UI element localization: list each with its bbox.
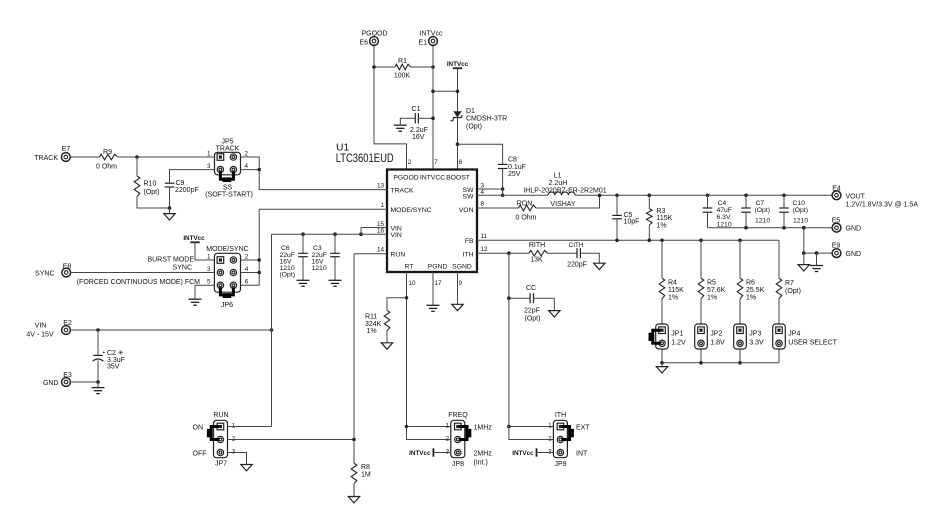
- svg-text:VISHAY: VISHAY: [550, 201, 575, 208]
- capacitor C9 2200pF: [165, 182, 175, 184]
- JP9 pin2 pad: [557, 436, 563, 442]
- JP7 pin1 pad: [217, 423, 224, 430]
- svg-text:ITH: ITH: [555, 412, 566, 419]
- svg-text:4: 4: [245, 163, 249, 170]
- ground SGND (triangle): [452, 304, 463, 310]
- svg-text:2: 2: [245, 253, 249, 260]
- svg-text:100K: 100K: [394, 73, 411, 80]
- svg-text:9: 9: [459, 280, 463, 287]
- node JP5 net junction: [257, 168, 261, 172]
- svg-text:RON: RON: [517, 200, 533, 207]
- svg-text:MODE/SYNC: MODE/SYNC: [206, 246, 248, 253]
- svg-text:CMDSH-3TR: CMDSH-3TR: [466, 116, 507, 123]
- wire E6 stub: [373, 46, 375, 67]
- JP6 pin3 pad: [217, 269, 223, 275]
- ground C2 (earth): [92, 387, 105, 389]
- node R1-PGOOD junction: [372, 65, 376, 69]
- wire JP6 pin4: [241, 272, 260, 274]
- svg-text:ITH: ITH: [463, 252, 474, 259]
- JP5 pin1 pad: [217, 154, 224, 161]
- JP6 pin4 pad: [230, 269, 236, 275]
- power flag INTVcc (JP9): [536, 448, 538, 456]
- wire R1 right: [411, 66, 434, 68]
- wire SW pin4 to L1: [477, 194, 548, 196]
- wire RT to R11: [387, 298, 407, 311]
- wire PGND stub: [432, 272, 434, 305]
- svg-text:JP1: JP1: [671, 331, 683, 338]
- svg-text:14: 14: [377, 246, 385, 253]
- wire INTVCC-D1 link: [433, 90, 458, 92]
- capacitor C4 47uF: [707, 195, 709, 208]
- wire TRACK net to U1 pin13: [259, 170, 387, 190]
- svg-text:E5: E5: [832, 218, 841, 225]
- JP8 pin1 pad: [455, 423, 462, 430]
- power flag INTVcc (top): [453, 67, 462, 69]
- JP8 shunt pins1-2: [459, 427, 467, 440]
- JP6 pin6 pad: [230, 282, 236, 288]
- svg-text:BURST MODE: BURST MODE: [147, 257, 194, 264]
- wire VIN pin15 stub: [361, 227, 387, 229]
- svg-text:4: 4: [245, 266, 249, 273]
- svg-text:VIN: VIN: [391, 232, 402, 239]
- ground JP7 (triangle): [241, 465, 252, 471]
- svg-text:LTC3601EUD: LTC3601EUD: [336, 151, 394, 165]
- svg-text:RUN: RUN: [391, 252, 406, 259]
- node SW pin4 junction: [501, 194, 505, 198]
- jumper JP3 block: [734, 324, 747, 349]
- capacitor C6 22uF: [302, 234, 304, 253]
- svg-text:JP6: JP6: [221, 302, 233, 309]
- power flag INTVcc (JP8): [432, 448, 434, 456]
- JP7 pin2 pad: [217, 436, 223, 442]
- svg-text:13K: 13K: [530, 256, 543, 263]
- svg-text:RUN: RUN: [213, 412, 228, 419]
- node C2 junction: [96, 328, 100, 332]
- svg-text:1: 1: [207, 150, 211, 157]
- svg-text:1%: 1%: [657, 222, 667, 229]
- svg-text:(Opt): (Opt): [755, 207, 770, 214]
- JP9 shunt pins1-2: [562, 427, 570, 440]
- svg-text:1.2V: 1.2V: [671, 340, 686, 347]
- power flag INTVcc (JP6): [190, 241, 199, 243]
- JP1 pin2 pad: [659, 340, 665, 346]
- svg-text:C2 ✳: C2 ✳: [107, 349, 124, 357]
- wire JP5 pin4: [241, 169, 260, 171]
- svg-text:8: 8: [481, 201, 485, 208]
- resistor R11 324K: [384, 310, 390, 331]
- turret E3 (GND): [62, 378, 71, 387]
- wire ground stub: [169, 208, 171, 214]
- svg-text:10: 10: [409, 280, 417, 287]
- svg-text:JP9: JP9: [554, 461, 566, 468]
- wire E7 to R9: [70, 156, 99, 158]
- svg-text:C1: C1: [412, 106, 421, 113]
- svg-text:1: 1: [445, 423, 449, 430]
- wire SGND stub: [457, 272, 459, 304]
- node E9 row left junction: [802, 251, 806, 255]
- svg-text:E7: E7: [62, 146, 71, 153]
- node R3 top junction: [648, 194, 652, 198]
- svg-text:22pF: 22pF: [524, 307, 540, 314]
- wire RON to SW net: [536, 195, 600, 208]
- svg-text:1MHz: 1MHz: [474, 424, 493, 431]
- jumper JP7 RUN block: [214, 420, 228, 457]
- svg-text:7: 7: [434, 159, 438, 166]
- svg-text:FREQ: FREQ: [448, 412, 468, 419]
- ground C6 (earth): [297, 279, 310, 281]
- svg-text:35V: 35V: [107, 363, 120, 370]
- wire VIN rail to U1: [272, 233, 362, 235]
- svg-text:PGOOD: PGOOD: [393, 175, 418, 182]
- svg-text:2: 2: [445, 436, 449, 443]
- resistor R6 25.5K: [739, 240, 741, 278]
- op-amp U1 LTC3601EUD body: [387, 170, 477, 273]
- capacitor CC 22pF: [509, 297, 530, 299]
- jumper JP1 block: [656, 324, 669, 349]
- svg-text:SW: SW: [463, 194, 475, 201]
- ground C3 (earth): [329, 279, 342, 281]
- node C6 junction: [301, 232, 305, 236]
- jumper JP4 block: [773, 324, 786, 349]
- svg-text:E8: E8: [63, 264, 72, 271]
- svg-text:324K: 324K: [365, 321, 382, 328]
- node rail JP2: [699, 361, 703, 365]
- node VIN pin tie junction: [359, 232, 363, 236]
- svg-text:JP4: JP4: [788, 331, 800, 338]
- svg-text:115K: 115K: [657, 215, 673, 222]
- svg-text:MODE/SYNC: MODE/SYNC: [391, 207, 432, 214]
- node C4 junction: [706, 194, 710, 198]
- node C3 junction: [333, 232, 337, 236]
- svg-text:2: 2: [245, 150, 249, 157]
- svg-text:(FORCED CONTINUOUS MODE) FCM: (FORCED CONTINUOUS MODE) FCM: [77, 279, 200, 286]
- svg-text:2: 2: [548, 436, 552, 443]
- svg-text:6: 6: [459, 159, 463, 166]
- svg-text:1%: 1%: [367, 328, 377, 335]
- wire gnd drop: [803, 228, 805, 253]
- wire VIN riser vertical: [271, 234, 273, 426]
- svg-text:GND: GND: [43, 380, 59, 387]
- node C10 junction: [782, 194, 786, 198]
- wire VIN pin15/16 tie: [360, 228, 362, 235]
- svg-text:R5: R5: [707, 280, 716, 287]
- svg-text:1210: 1210: [755, 217, 770, 224]
- wire D1 cathode to BOOST pin6: [457, 118, 459, 170]
- wire RUN net riser: [353, 254, 355, 440]
- svg-text:3: 3: [207, 266, 211, 273]
- wire RITH to CITH: [548, 252, 578, 254]
- JP3 pin1 pad: [737, 327, 744, 334]
- svg-text:R7: R7: [785, 280, 794, 287]
- wire FB rail from U1 pin11: [477, 239, 779, 241]
- jumper JP2 block: [695, 324, 708, 349]
- resistor R5 57.6K: [700, 240, 702, 278]
- svg-text:RT: RT: [405, 264, 414, 271]
- wire C6 bottom: [302, 257, 304, 280]
- svg-text:JP2: JP2: [710, 331, 722, 338]
- svg-text:TRACK: TRACK: [34, 155, 58, 162]
- ground output (earth): [810, 265, 823, 267]
- resistor R8 1M: [353, 440, 355, 464]
- svg-text:VIN: VIN: [35, 322, 47, 329]
- wire C8 to SW: [502, 169, 504, 196]
- resistor R4 115K: [661, 240, 663, 278]
- turret E6 (PGOOD): [370, 37, 379, 46]
- wire JP7 pin1 to VIN: [228, 426, 272, 428]
- svg-text:CC: CC: [526, 285, 536, 292]
- wire jumper to rail: [739, 349, 741, 363]
- svg-text:IHLP-2020BZ-ER-2R2M01: IHLP-2020BZ-ER-2R2M01: [523, 187, 606, 194]
- JP6 pin5 pad: [217, 282, 223, 288]
- jumper JP9 ITH block: [553, 420, 567, 457]
- JP8 pin3 pad: [455, 449, 461, 455]
- svg-text:VON: VON: [459, 207, 474, 214]
- node pin2 junction: [257, 258, 261, 262]
- JP2 pin1 pad: [698, 327, 705, 334]
- node RT junction: [405, 296, 409, 300]
- diode D1 CMDSH-3TR: [453, 111, 462, 117]
- svg-text:6: 6: [245, 279, 249, 286]
- svg-text:TRACK: TRACK: [391, 188, 415, 195]
- JP5 pin3 pad: [217, 166, 223, 172]
- node C5 bottom: [615, 239, 619, 243]
- capacitor C5 10pF: [616, 195, 618, 215]
- node C10 bottom: [782, 226, 786, 230]
- JP5 shunt pins3-4: [220, 172, 233, 180]
- ground divider (triangle): [656, 367, 667, 373]
- capacitor C1 2.2uF: [414, 113, 416, 123]
- svg-text:13: 13: [377, 182, 385, 189]
- wire MODE/SYNC to U1 pin1: [259, 208, 387, 210]
- svg-text:JP5: JP5: [221, 138, 233, 145]
- svg-text:220pF: 220pF: [567, 262, 587, 269]
- node FREQ fork junction: [405, 425, 409, 429]
- wire to earth ground: [816, 253, 818, 265]
- wire VON pin8 to RON: [477, 207, 519, 209]
- svg-text:1210: 1210: [312, 265, 327, 272]
- wire E8 to JP6 pin3: [71, 272, 215, 274]
- node link left: [431, 90, 435, 94]
- svg-text:FB: FB: [465, 238, 474, 245]
- turret E1 (INTVcc): [429, 37, 438, 46]
- JP3 pin2 pad: [737, 340, 743, 346]
- svg-text:2.2uH: 2.2uH: [549, 180, 568, 187]
- svg-text:(Int.): (Int.): [474, 459, 488, 466]
- wire RT stub: [406, 272, 408, 298]
- svg-text:47uF: 47uF: [717, 207, 733, 214]
- svg-text:(Opt): (Opt): [785, 288, 801, 295]
- wire R10 bottom: [137, 197, 170, 209]
- wire CC riser: [508, 253, 510, 426]
- JP5 pin4 pad: [230, 166, 236, 172]
- ground C1 (earth): [394, 124, 407, 126]
- svg-text:0 Ohm: 0 Ohm: [515, 215, 536, 222]
- JP9 pin3 pad: [557, 449, 563, 455]
- svg-text:RITH: RITH: [529, 242, 545, 249]
- node rail JP1: [660, 361, 664, 365]
- svg-text:SS: SS: [223, 184, 233, 191]
- capacitor C10 (Opt): [783, 195, 785, 208]
- svg-text:25.5K: 25.5K: [746, 287, 765, 294]
- svg-text:INTVcc: INTVcc: [183, 235, 205, 242]
- node D1/C8 junction: [456, 142, 460, 146]
- svg-text:1: 1: [207, 253, 211, 260]
- svg-text:INTVcc: INTVcc: [409, 450, 431, 457]
- svg-text:3: 3: [207, 163, 211, 170]
- node R4 top: [660, 239, 664, 243]
- svg-text:R11: R11: [365, 314, 377, 321]
- svg-text:EXT: EXT: [576, 424, 590, 431]
- wire JP6 pin5 to ground: [195, 285, 214, 299]
- svg-text:C7: C7: [756, 200, 765, 207]
- wire R11 bottom: [386, 331, 388, 343]
- svg-text:INTVCC: INTVCC: [420, 175, 445, 182]
- node R3 bottom: [648, 239, 652, 243]
- node SW pin3 junction: [501, 187, 505, 191]
- node rail JP3: [738, 361, 742, 365]
- wire jumper to rail: [661, 349, 663, 363]
- wire E9 row: [804, 252, 832, 254]
- node C7 bottom: [744, 226, 748, 230]
- svg-text:(Opt): (Opt): [793, 207, 808, 214]
- svg-text:1.8V: 1.8V: [710, 340, 725, 347]
- wire CC to ground: [534, 298, 555, 310]
- ground C9 (triangle): [164, 214, 175, 220]
- node RUN/R8 junction: [352, 438, 356, 442]
- JP6 pin1 pad: [217, 257, 224, 264]
- JP1 shunt: [653, 330, 661, 343]
- JP5 pin2 pad: [230, 154, 236, 160]
- svg-text:SYNC: SYNC: [35, 271, 54, 278]
- node ITH fork junction: [507, 425, 511, 429]
- ground CC (triangle): [549, 311, 560, 317]
- svg-text:E4: E4: [832, 185, 841, 192]
- svg-text:INTVcc: INTVcc: [447, 61, 469, 68]
- svg-text:INTVcc: INTVcc: [512, 450, 534, 457]
- wire SW pin3 stub: [477, 188, 503, 190]
- svg-text:57.6K: 57.6K: [707, 287, 726, 294]
- svg-text:(Opt): (Opt): [525, 315, 541, 322]
- resistor RITH 13K: [529, 250, 548, 256]
- wire R1 left: [374, 66, 395, 68]
- wire to C8: [458, 144, 503, 164]
- wire jumper to rail: [778, 349, 780, 363]
- wire E2 to VIN riser: [70, 329, 271, 331]
- svg-text:C8: C8: [508, 157, 517, 164]
- svg-text:PGOOD: PGOOD: [361, 31, 387, 38]
- svg-text:5: 5: [207, 279, 211, 286]
- node C9 ground junction: [168, 206, 172, 210]
- ground R8 (triangle): [348, 497, 359, 503]
- inductor L1 2.2uH: [548, 192, 575, 195]
- svg-text:1%: 1%: [746, 295, 756, 302]
- svg-text:16V: 16V: [412, 134, 425, 141]
- JP4 pin1 pad: [776, 327, 783, 334]
- capacitor C2 3.3uF polarized: [97, 330, 99, 355]
- node R5 top: [699, 239, 703, 243]
- node gnd drop junction: [802, 226, 806, 230]
- svg-text:1: 1: [548, 423, 552, 430]
- svg-text:E1: E1: [418, 40, 427, 47]
- svg-text:R4: R4: [668, 280, 677, 287]
- svg-text:25V: 25V: [508, 171, 521, 178]
- wire flag to JP6 pin1: [195, 242, 214, 260]
- svg-text:1210: 1210: [793, 217, 808, 224]
- JP7 pin3 pad: [217, 449, 223, 455]
- wire C2 bottom: [97, 360, 99, 382]
- node E9 row mid junction: [815, 251, 819, 255]
- wire JP6 pin2: [241, 259, 260, 261]
- svg-text:R10: R10: [144, 181, 157, 188]
- svg-text:R8: R8: [361, 464, 370, 471]
- svg-text:4V - 15V: 4V - 15V: [26, 332, 54, 339]
- svg-text:16: 16: [377, 228, 385, 235]
- JP1 pin1 pad: [659, 327, 666, 334]
- node R10 junction: [135, 155, 139, 159]
- svg-text:R1: R1: [398, 58, 407, 65]
- svg-text:1%: 1%: [668, 295, 678, 302]
- svg-text:0 Ohm: 0 Ohm: [96, 163, 117, 170]
- svg-text:115K: 115K: [668, 287, 684, 294]
- svg-text:2: 2: [408, 159, 412, 166]
- svg-text:(SOFT-START): (SOFT-START): [205, 191, 253, 198]
- svg-text:JP8: JP8: [452, 461, 464, 468]
- JP6 shunt pins5-6: [220, 287, 233, 295]
- node VIN riser junction: [270, 328, 274, 332]
- wire R9 to JP5 pin1: [118, 156, 215, 158]
- wire SW pin4 tie: [502, 189, 504, 195]
- svg-text:PGND: PGND: [428, 264, 448, 271]
- resistor RON 0 Ohm: [519, 205, 537, 211]
- node R6 top: [738, 239, 742, 243]
- wire jumper to rail: [700, 349, 702, 363]
- wire to triangle ground: [803, 253, 805, 265]
- resistor R1: [395, 64, 411, 70]
- wire JP7 pin2 to RUN net: [228, 439, 355, 441]
- svg-text:3.3V: 3.3V: [749, 340, 764, 347]
- node link right: [456, 90, 460, 94]
- wire ITH pin12 stub: [477, 252, 529, 254]
- wire VIN pin16 stub: [361, 233, 387, 235]
- svg-text:10pF: 10pF: [624, 219, 640, 226]
- wire E3 to C2: [70, 381, 98, 383]
- node RON junction: [598, 194, 602, 198]
- ground output (triangle): [798, 265, 809, 271]
- svg-text:D1: D1: [466, 108, 475, 115]
- turret E5 (GND): [832, 223, 841, 232]
- ground CITH (triangle): [594, 263, 605, 269]
- svg-text:12: 12: [481, 246, 489, 253]
- wire C1 left to ground: [400, 118, 415, 125]
- wire jumper ground rail: [662, 362, 779, 364]
- wire C3 bottom: [334, 257, 336, 280]
- svg-text:6.3V: 6.3V: [717, 214, 731, 221]
- svg-text:VOUT: VOUT: [846, 193, 866, 200]
- wire ITH fork: [509, 427, 554, 440]
- node pin4 junction: [257, 271, 261, 275]
- wire L1 to VOUT rail: [575, 194, 832, 196]
- svg-text:JP3: JP3: [749, 331, 761, 338]
- wire FREQ riser: [406, 298, 408, 427]
- resistor R10 (Opt): [136, 157, 138, 176]
- svg-text:(Opt): (Opt): [466, 123, 482, 130]
- JP7 shunt pins1-2: [211, 427, 219, 440]
- wire output cap ground rail: [708, 227, 833, 229]
- svg-text:CITH: CITH: [569, 242, 584, 249]
- svg-text:L1: L1: [554, 173, 562, 180]
- JP9 pin1 pad: [557, 423, 564, 430]
- capacitor C7 (Opt): [745, 195, 747, 208]
